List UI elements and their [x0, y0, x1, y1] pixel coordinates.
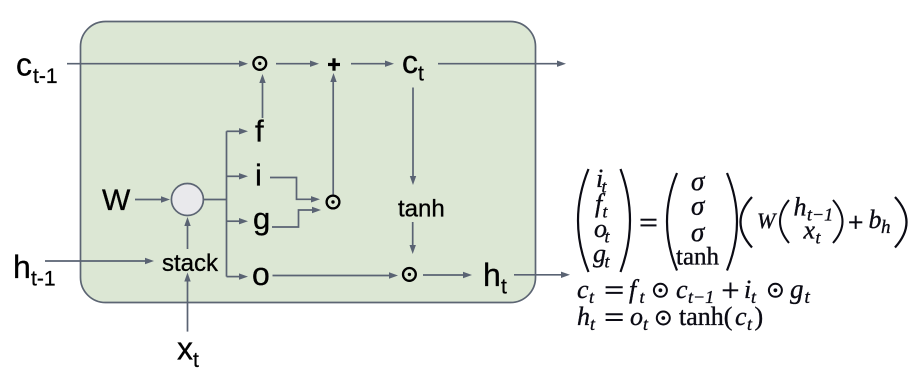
svg-text:g: g [253, 201, 270, 236]
svg-text:t: t [805, 287, 811, 308]
arrowhead into odot-top [239, 61, 248, 67]
wire odot-mid up to plus [332, 82, 334, 195]
wire c_t down to tanh [412, 88, 414, 177]
odot-bottom operator [403, 268, 416, 281]
svg-text:c: c [402, 44, 418, 80]
equation group-3 big right paren [895, 197, 907, 248]
arrowhead into plus [310, 61, 319, 67]
wire odot-bottom to h_t [423, 274, 463, 276]
svg-text:σ: σ [691, 217, 706, 247]
wire spine to g [227, 220, 240, 222]
equation x_t entry [803, 216, 822, 248]
svg-text:W: W [102, 184, 131, 217]
stack circle [171, 184, 203, 216]
arrowhead stack to circle [184, 217, 190, 226]
wire stack up to circle [187, 226, 189, 249]
arrowhead f to odot-top [259, 74, 265, 83]
svg-text:g: g [790, 274, 804, 304]
arrowhead spine to o [239, 273, 248, 279]
wire spine to i [227, 175, 240, 177]
arrowhead spine to i [239, 173, 248, 179]
odot-top operator [253, 57, 266, 70]
arrowhead odot-bottom to h_t [463, 272, 472, 278]
wire spine to f [227, 130, 240, 132]
wire c_t-1 into cell [67, 63, 239, 65]
arrowhead tanh to odot-bottom [410, 245, 416, 254]
wire c_t out of cell [438, 63, 557, 65]
label c_t-1 [16, 47, 58, 89]
wire W to stack circle [135, 199, 161, 201]
svg-text:t-1: t-1 [31, 268, 56, 291]
LSTM cell box [81, 22, 536, 303]
equation vector-1 left paren [578, 169, 589, 272]
svg-text:b: b [869, 205, 882, 234]
equation inner right paren [833, 200, 843, 243]
svg-text:i: i [255, 158, 262, 193]
svg-text:f: f [255, 113, 264, 148]
svg-text:tanh: tanh [676, 244, 720, 271]
svg-text:o: o [630, 302, 643, 331]
plus operator [328, 58, 340, 70]
arrowhead into c_t [385, 61, 394, 67]
wire g to odot-mid [272, 210, 312, 227]
svg-text:h: h [483, 257, 501, 293]
svg-text:c: c [735, 302, 747, 331]
wire tanh down to odot-bottom [412, 222, 414, 245]
svg-text:h: h [13, 249, 31, 285]
arrowhead o to odot-bottom [389, 272, 398, 278]
equation equals [641, 220, 657, 226]
svg-text:): ) [755, 302, 764, 331]
odot-mid operator [327, 196, 340, 209]
arrowhead c_t out [557, 61, 566, 67]
arrowhead g-wire to odot-mid [312, 207, 321, 213]
arrowhead h_t out [561, 272, 570, 278]
svg-text:h: h [881, 217, 891, 238]
equation vector-1 entries [593, 164, 611, 272]
svg-text:x: x [803, 216, 816, 245]
arrowhead W to circle [161, 196, 170, 202]
equation vector-2 left paren [667, 173, 677, 271]
equation line 2: c_t = f_t odot c_t-1 + i_t odot g_t [577, 274, 811, 308]
wire o to odot-bottom [273, 275, 390, 277]
svg-text:t-1: t-1 [33, 65, 58, 88]
equation line 3: h_t = o_t odot tanh(c_t) [577, 302, 763, 334]
svg-text:stack: stack [162, 250, 219, 277]
label x_t [177, 331, 199, 373]
equation vector-2 entries [676, 166, 720, 271]
svg-text:tanh(: tanh( [679, 302, 732, 331]
wire x_t up to stack [187, 282, 189, 332]
label h_t-1 [13, 249, 56, 291]
svg-text:c: c [676, 275, 688, 304]
equation plus b_h [849, 205, 890, 238]
svg-text:t: t [418, 63, 424, 86]
wire spine to o [227, 276, 240, 278]
equation group-3 big left paren [741, 197, 753, 248]
label h_t [483, 257, 507, 299]
svg-text:W: W [757, 208, 777, 233]
wire plus to c_t [351, 63, 385, 65]
arrowhead x_t to stack [184, 273, 190, 282]
svg-text:t: t [193, 349, 199, 372]
arrowhead spine to g [239, 218, 248, 224]
svg-text:c: c [577, 275, 589, 304]
arrowhead odot-mid to plus [330, 73, 336, 82]
wire i to odot-mid [270, 178, 311, 200]
arrowhead c_t to tanh [410, 176, 416, 185]
wire h_t-1 into stack [45, 260, 145, 262]
equation h_t-1 entry [794, 193, 834, 225]
wire h_t out of cell [514, 274, 561, 276]
svg-text:x: x [177, 331, 193, 367]
svg-text:tanh: tanh [398, 196, 445, 223]
wire f up to odot-top [262, 83, 264, 118]
svg-text:h: h [577, 302, 590, 331]
arrowhead spine to f [239, 128, 248, 134]
label c_t [402, 44, 424, 86]
svg-text:o: o [252, 256, 270, 292]
equation vector-2 right paren [727, 173, 737, 271]
svg-text:t: t [501, 276, 507, 299]
arrowhead h_t-1 to stack [145, 258, 154, 264]
wire odot-top to plus [276, 63, 310, 65]
wire circle to spine [204, 199, 227, 201]
svg-text:σ: σ [691, 191, 706, 221]
equation vector-1 right paren [621, 169, 631, 272]
arrowhead i-wire to odot-mid [311, 196, 320, 202]
svg-text:c: c [16, 47, 32, 83]
wire spine vertical [226, 131, 228, 276]
equation inner left paren [780, 200, 789, 243]
